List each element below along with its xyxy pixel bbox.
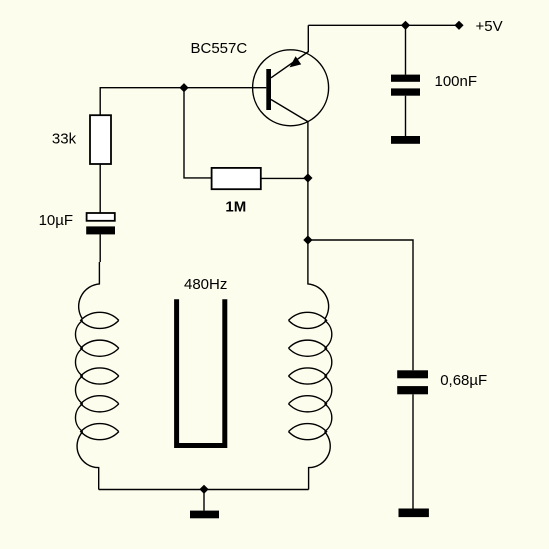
node ground junction: [199, 485, 208, 494]
wire 0,68uF to ground: [412, 394, 414, 508]
svg-text:480Hz: 480Hz: [184, 276, 227, 293]
wire base node to 1M: [184, 88, 212, 178]
svg-text:10µF: 10µF: [39, 212, 74, 229]
resistor R1 33k: [90, 115, 111, 164]
wire 1M to collector: [261, 177, 308, 179]
ground GND2: [399, 509, 429, 518]
capacitor C3 100nF: [391, 75, 420, 96]
wire junction to ground: [203, 489, 205, 510]
node collector/C junction: [303, 235, 312, 244]
svg-text:+5V: +5V: [476, 18, 503, 35]
svg-text:0,68µF: 0,68µF: [440, 372, 487, 389]
wire rail to 100nF: [405, 25, 407, 74]
capacitor C2 0,68uF: [397, 370, 428, 394]
wire 33k to 10uF: [99, 164, 101, 213]
svg-text:100nF: 100nF: [435, 73, 478, 90]
node collector/1M junction: [303, 173, 312, 182]
ground GND3: [391, 136, 420, 144]
tuning fork 480Hz: [177, 299, 225, 445]
inductor L1 left coil: [75, 262, 118, 490]
wire 10uF to left coil: [99, 234, 101, 262]
node +5V terminal: [454, 21, 463, 30]
wire base to left column: [100, 88, 266, 115]
svg-text:BC557C: BC557C: [191, 40, 248, 57]
node rail/100nF junction: [401, 21, 410, 30]
wire 100nF to ground: [405, 96, 407, 136]
svg-text:33k: 33k: [52, 130, 77, 147]
wire top rail to +5V: [308, 24, 459, 26]
wire emitter to rail: [307, 25, 309, 52]
wire collector down: [307, 122, 309, 262]
transistor Q1 BC557C: [253, 50, 329, 126]
inductor L2 right coil: [289, 262, 332, 490]
wire bottom rail: [99, 489, 309, 491]
resistor R2 1M: [212, 168, 261, 189]
svg-text:1M: 1M: [225, 198, 246, 215]
wire collector node to 0,68uF: [308, 240, 413, 370]
capacitor C1 10uF polarized: [86, 213, 115, 234]
ground GND1: [190, 511, 219, 519]
node base junction: [179, 83, 188, 92]
